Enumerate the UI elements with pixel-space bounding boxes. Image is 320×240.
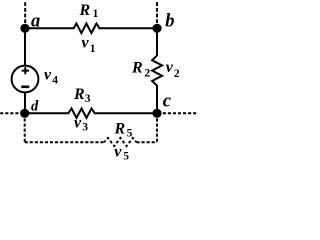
svg-text:v: v	[114, 144, 122, 161]
resistor R1 with top wire a-b	[25, 24, 157, 34]
svg-text:5: 5	[123, 150, 129, 162]
svg-text:R: R	[114, 121, 126, 138]
node c (junction dot)	[152, 109, 161, 118]
dashed extension left of node d	[0, 112, 19, 114]
wire node a to voltage source	[24, 28, 26, 66]
resistor R5 (dashed zigzag)	[104, 138, 137, 146]
svg-text:v: v	[82, 35, 90, 52]
svg-text:1: 1	[93, 8, 99, 20]
svg-text:4: 4	[52, 75, 58, 87]
svg-text:R: R	[79, 2, 91, 19]
svg-text:R: R	[73, 86, 85, 103]
node a (junction dot)	[20, 24, 29, 33]
svg-text:d: d	[31, 98, 39, 114]
node label b	[165, 12, 174, 32]
resistor R2 with right wire b-c	[152, 28, 162, 113]
resistor R3 with bottom wire d-c	[25, 109, 157, 118]
wire voltage source to node d	[24, 92, 26, 113]
voltage source v4 circle	[12, 66, 39, 93]
dashed wire from node d down to bottom rail	[24, 119, 26, 143]
label R1	[79, 2, 99, 20]
dashed wire from node c down to bottom rail	[156, 119, 158, 143]
node label d	[31, 98, 39, 114]
label v5	[114, 144, 129, 163]
node label a	[31, 12, 40, 32]
svg-text:a: a	[31, 12, 40, 32]
label R3	[73, 86, 91, 105]
label v4	[44, 67, 58, 87]
label R5	[114, 121, 133, 140]
svg-text:c: c	[163, 92, 171, 112]
svg-text:R: R	[131, 60, 143, 77]
dashed extension above node a	[24, 2, 26, 23]
svg-text:b: b	[165, 12, 174, 32]
dashed extension right of node c	[163, 112, 197, 114]
svg-text:5: 5	[127, 128, 133, 140]
dashed bottom rail right segment	[137, 141, 158, 143]
label v1	[82, 35, 96, 56]
voltage source plus sign	[22, 67, 29, 74]
dashed bottom rail left segment	[25, 141, 104, 143]
node label c	[163, 92, 171, 112]
svg-text:v: v	[74, 115, 82, 132]
svg-text:v: v	[166, 59, 174, 76]
node b (junction dot)	[152, 24, 161, 33]
label v2	[166, 59, 180, 80]
svg-text:3: 3	[82, 122, 88, 134]
svg-text:v: v	[44, 67, 52, 84]
label R2	[131, 60, 150, 80]
voltage source minus sign	[21, 86, 29, 89]
svg-text:1: 1	[90, 43, 96, 55]
dashed extension above node b	[156, 2, 158, 23]
svg-text:2: 2	[174, 68, 180, 80]
svg-text:3: 3	[85, 93, 91, 105]
node d (junction dot)	[20, 109, 29, 118]
label v3	[74, 115, 88, 134]
svg-text:2: 2	[144, 67, 150, 79]
